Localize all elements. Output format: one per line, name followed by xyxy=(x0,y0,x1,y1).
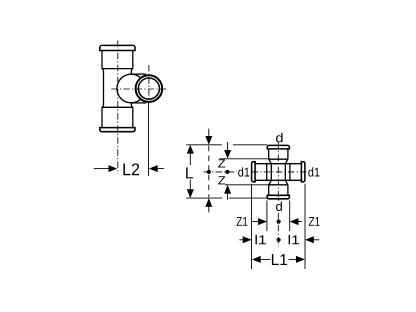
cross: vertical centerline xyxy=(277,142,279,246)
pictorial: branch top ledge xyxy=(131,73,146,75)
pictorial view: vertical pipe top bead xyxy=(100,45,135,50)
pictorial: top socket body xyxy=(102,51,133,69)
cross: bottom pipe-stop line xyxy=(269,184,288,186)
cross: horizontal branch top outline xyxy=(255,163,301,165)
dimension Z1 (left and right) xyxy=(237,217,320,226)
pictorial: bottom taper xyxy=(102,106,133,108)
pictorial: branch boss xyxy=(117,74,146,103)
dimension L1 xyxy=(252,254,305,265)
cross: vertical tube left side xyxy=(269,159,272,185)
label d1 (left) xyxy=(238,167,249,176)
cross: right pipe-stop line xyxy=(289,164,291,181)
cross: bottom socket body xyxy=(269,185,288,196)
cross: left bead xyxy=(252,162,256,182)
cross: vertical tube right side xyxy=(285,159,288,185)
pictorial: branch bottom ledge xyxy=(131,102,146,104)
dimension Z (x2) xyxy=(218,142,231,200)
extension line: right face vertical xyxy=(304,184,306,269)
dimension L2 xyxy=(94,163,164,175)
extension line: top face xyxy=(186,144,267,146)
pictorial: bottom bead xyxy=(100,128,135,132)
cross: top pipe-stop line xyxy=(269,158,288,160)
pictorial: pipe body sides xyxy=(104,70,132,105)
dimension L xyxy=(186,145,194,198)
cross: top socket body xyxy=(269,149,288,159)
extension line: bottom face xyxy=(186,197,267,199)
pictorial: bottom socket body xyxy=(102,107,133,127)
extension line: bottom pipe-stop xyxy=(225,184,269,186)
pictorial: pipe vertical centerline xyxy=(117,41,119,175)
pictorial: L2 extension line from branch centre xyxy=(148,101,150,176)
cross: right bead xyxy=(301,162,305,182)
extension line: right stop vertical xyxy=(289,200,291,231)
cross: bottom bead xyxy=(267,195,289,199)
label d (bottom) xyxy=(276,202,282,211)
extension line: left face vertical xyxy=(251,184,253,269)
label d1 (right) xyxy=(308,167,319,176)
cross: horizontal centerline xyxy=(204,171,307,173)
dimension centre-to-faces (dashed line with dot) xyxy=(205,129,212,213)
pictorial: branch horizontal centerline xyxy=(111,88,167,90)
pictorial: branch vertical centerline xyxy=(148,65,150,101)
label d (top) xyxy=(276,133,283,142)
cross: horizontal branch bottom outline xyxy=(255,179,301,181)
pictorial: branch outer circle xyxy=(136,75,163,102)
extension line: top pipe-stop xyxy=(219,158,268,160)
cross: top bead xyxy=(267,145,289,149)
extension line: left stop vertical xyxy=(266,200,268,231)
cross: left pipe-stop line xyxy=(266,164,268,181)
dimension l1 (left and right) xyxy=(239,235,319,244)
pictorial: branch inner circle xyxy=(138,78,159,99)
pictorial: socket-to-pipe taper top xyxy=(102,69,133,71)
